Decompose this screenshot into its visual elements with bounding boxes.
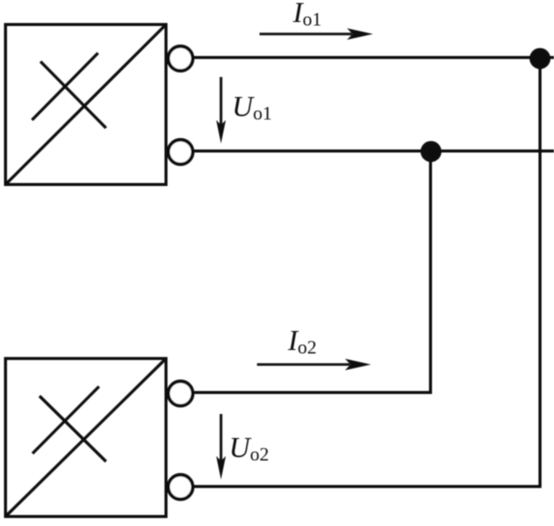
wire W1 top output of U1	[194, 56, 554, 59]
converter U1 cross stroke backslash	[41, 62, 107, 129]
svg-text:Uo1: Uo1	[232, 91, 272, 125]
converter U2 cross stroke backslash	[40, 396, 107, 462]
terminal T3 of U2	[168, 381, 193, 406]
current arrow Io1	[260, 28, 374, 39]
svg-text:Io2: Io2	[287, 325, 317, 359]
converter U2 cross stroke slash	[33, 387, 100, 454]
converter U1 cross stroke slash	[32, 53, 98, 120]
terminal T1 of U1	[168, 46, 193, 71]
wire V1 vertical from node A down to W4	[539, 58, 542, 489]
converter U2 diagonal	[6, 359, 167, 517]
converter block U2	[6, 359, 167, 517]
converter U1 diagonal	[6, 25, 167, 185]
node B junction dot	[421, 141, 442, 162]
svg-text:Io1: Io1	[292, 0, 322, 31]
svg-text:Uo2: Uo2	[229, 432, 269, 466]
voltage arrow Uo1	[216, 77, 226, 144]
terminal T4 of U2	[168, 475, 193, 500]
wire V2 vertical from node B down to W3	[429, 151, 432, 394]
wire W4 bottom output of U2	[194, 485, 542, 488]
wire W3 top output of U2	[194, 391, 432, 394]
converter block U1	[6, 25, 167, 185]
node A junction dot	[530, 48, 551, 69]
voltage arrow Uo2	[216, 414, 226, 480]
wire W2 bottom output of U1	[194, 150, 554, 153]
terminal T2 of U1	[168, 140, 193, 165]
current arrow Io2	[257, 359, 371, 370]
